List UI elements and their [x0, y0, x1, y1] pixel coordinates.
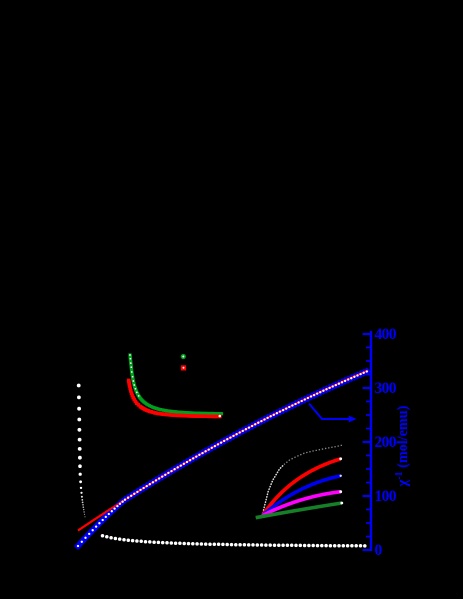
right axis tick labels 400..0 — [375, 326, 397, 559]
bottom-right inset: M(H) isotherm, lowest T (white dotted curve, lower part) — [263, 465, 285, 516]
top-left inset legend: red marker — [181, 365, 186, 370]
right axis line (blue) — [370, 331, 372, 551]
right axis major ticks — [363, 334, 372, 550]
red fit line repeated on top of symbols — [78, 371, 368, 531]
inverse susceptibility 1/chi data (blue diamonds) — [74, 367, 371, 550]
bottom-right inset: M(H) isotherm (red curve) — [263, 457, 343, 515]
bottom-right inset: M(H) isotherm, highest T (green curve) — [256, 502, 343, 518]
chi(T) data curve, steep low-T branch (white dots) — [77, 384, 86, 518]
top-left inset legend: green marker — [181, 354, 186, 359]
svg-text:400: 400 — [375, 326, 397, 343]
svg-text:100: 100 — [375, 488, 397, 505]
svg-text:200: 200 — [375, 434, 397, 451]
svg-text:300: 300 — [375, 380, 397, 397]
white centers of the 1/chi diamond symbols — [77, 370, 368, 547]
chi(T) data curve, high-T tail (white dots) — [101, 534, 367, 548]
right axis minor ticks — [366, 348, 371, 537]
bottom-right inset: M(H) isotherm (blue curve) — [263, 475, 342, 516]
bottom-right inset: M(H) isotherm, lowest T (faint gray dashed upper part) — [284, 445, 342, 464]
arrow from 1/chi curve to right axis — [309, 404, 357, 423]
svg-text:0: 0 — [375, 542, 383, 559]
Curie-Weiss fit line (red) over inverse susceptibility — [78, 371, 368, 531]
white centers on upper part of green FC curve — [129, 354, 139, 397]
top-left inset: ZFC magnetization curve (red dots) — [127, 379, 222, 419]
top-left inset: FC magnetization curve (green dots with white centers) — [128, 353, 223, 415]
bottom-right inset: M(H) isotherm (magenta curve) — [263, 490, 343, 515]
